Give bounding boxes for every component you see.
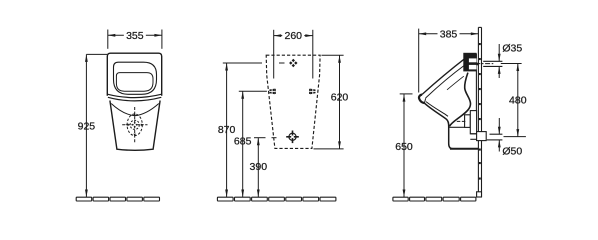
- side view: urinal top slope outer: [422, 57, 467, 94]
- side view: dimension O35: [498, 44, 500, 61]
- svg-text:685: 685: [234, 135, 252, 147]
- side view: dimension 480 extension lines: [501, 63, 522, 65]
- plan template: floor strip: [217, 197, 233, 201]
- svg-text:260: 260: [284, 30, 302, 42]
- front view: dimension 355 extension lines: [107, 30, 109, 49]
- plan template: dimension 620 extension lines: [322, 54, 344, 56]
- front view: dimension 925: [85, 54, 87, 197]
- front view: rim front arc 2: [108, 97, 161, 101]
- front view: drain symbol center star: [132, 122, 138, 128]
- side view: nose-to-inner-line step: [424, 98, 425, 103]
- plan template: dimension 390: [257, 138, 259, 197]
- plan template: dimension 870: [226, 63, 228, 197]
- plan template: left fixing anchor: [269, 89, 274, 95]
- svg-text:Ø50: Ø50: [502, 145, 522, 157]
- side view: wall joint marks: [479, 43, 481, 45]
- side view: dimension 385: [419, 33, 438, 35]
- front view: dimension 355: [108, 34, 124, 36]
- side view: urinal underside shell: [424, 103, 478, 149]
- front view: bowl opening rim: [114, 62, 157, 94]
- svg-text:925: 925: [78, 121, 96, 133]
- plan template: marker extension dash: [279, 62, 285, 64]
- side view: shell bottom edge emphasis: [450, 148, 478, 150]
- plan template: dimension 685: [242, 91, 244, 197]
- plan template: dimension 685 extension line: [239, 90, 267, 92]
- svg-text:390: 390: [250, 161, 268, 173]
- svg-text:385: 385: [440, 28, 458, 40]
- side view: dimension O50: [498, 118, 500, 134]
- svg-text:Ø35: Ø35: [502, 42, 522, 54]
- svg-text:650: 650: [395, 141, 413, 153]
- plan template: drain drill target: [289, 133, 296, 140]
- svg-text:355: 355: [126, 30, 144, 42]
- side view: wall base block: [477, 192, 482, 197]
- side view: drain chamber top line: [449, 126, 464, 128]
- front view: drain symbol dashed circle: [130, 120, 139, 129]
- front view: urinal tapered lower body: [110, 101, 160, 151]
- side view: water inlet connector: [463, 53, 476, 72]
- side view: outlet sleeve through wall: [477, 132, 487, 141]
- front view: drain symbol dashed ellipse: [127, 114, 142, 136]
- plan template: dimension 390 extension line: [254, 137, 266, 139]
- plan template: dimension 260: [274, 35, 283, 37]
- plan template: dimension 870 extension line: [223, 62, 262, 64]
- svg-text:620: 620: [331, 92, 349, 104]
- side view: urinal front nose lip: [419, 95, 424, 104]
- front view: floor strip: [76, 197, 92, 201]
- side view: floor strip: [393, 197, 408, 201]
- side view: urinal inner surface partial line: [447, 76, 464, 90]
- side view: urinal back face on wall: [475, 54, 477, 134]
- plan template: dashed outline: [266, 55, 320, 148]
- plan template: dimension 620: [339, 55, 341, 149]
- side view: urinal trap back curve: [449, 73, 470, 127]
- side view: inlet pipe stub O35: [483, 60, 502, 62]
- plan template: top mounting marker: [289, 59, 297, 67]
- front view: rim front arc 1: [107, 94, 161, 97]
- front view: inner bowl: [116, 73, 153, 92]
- side view: drain housing: [470, 111, 476, 134]
- side view: O50 reference lines: [490, 133, 503, 135]
- side view: dimension 650 extension line: [400, 93, 413, 95]
- svg-text:480: 480: [509, 94, 527, 106]
- side view: inlet center line: [466, 63, 495, 65]
- front view: urinal outer body: [107, 53, 161, 96]
- plan template: dimension 260 extension lines: [273, 30, 275, 79]
- side view: drain stub: [465, 115, 471, 128]
- side view: wall panel: [477, 27, 479, 197]
- side view: bowl inner bottom surface line: [426, 102, 448, 117]
- side view: dimension 650: [403, 94, 405, 197]
- side view: outlet pipe lines: [470, 133, 476, 135]
- svg-text:870: 870: [218, 124, 236, 136]
- side view: urinal top slope inner: [426, 65, 465, 98]
- side view: dimension 480: [517, 64, 519, 137]
- front view: drain symbol arrowheads: [134, 113, 136, 116]
- side view: dimension 385 extension line: [418, 29, 420, 93]
- plan template: right fixing anchor: [310, 89, 315, 95]
- front view: bowl interior front curve: [111, 104, 159, 116]
- front view: dimension 925 extension line: [86, 53, 107, 55]
- plan template: 390 extension dash fragment: [272, 137, 277, 139]
- side view: drain center line: [457, 120, 466, 122]
- front view: drain symbol crosshair: [134, 107, 136, 143]
